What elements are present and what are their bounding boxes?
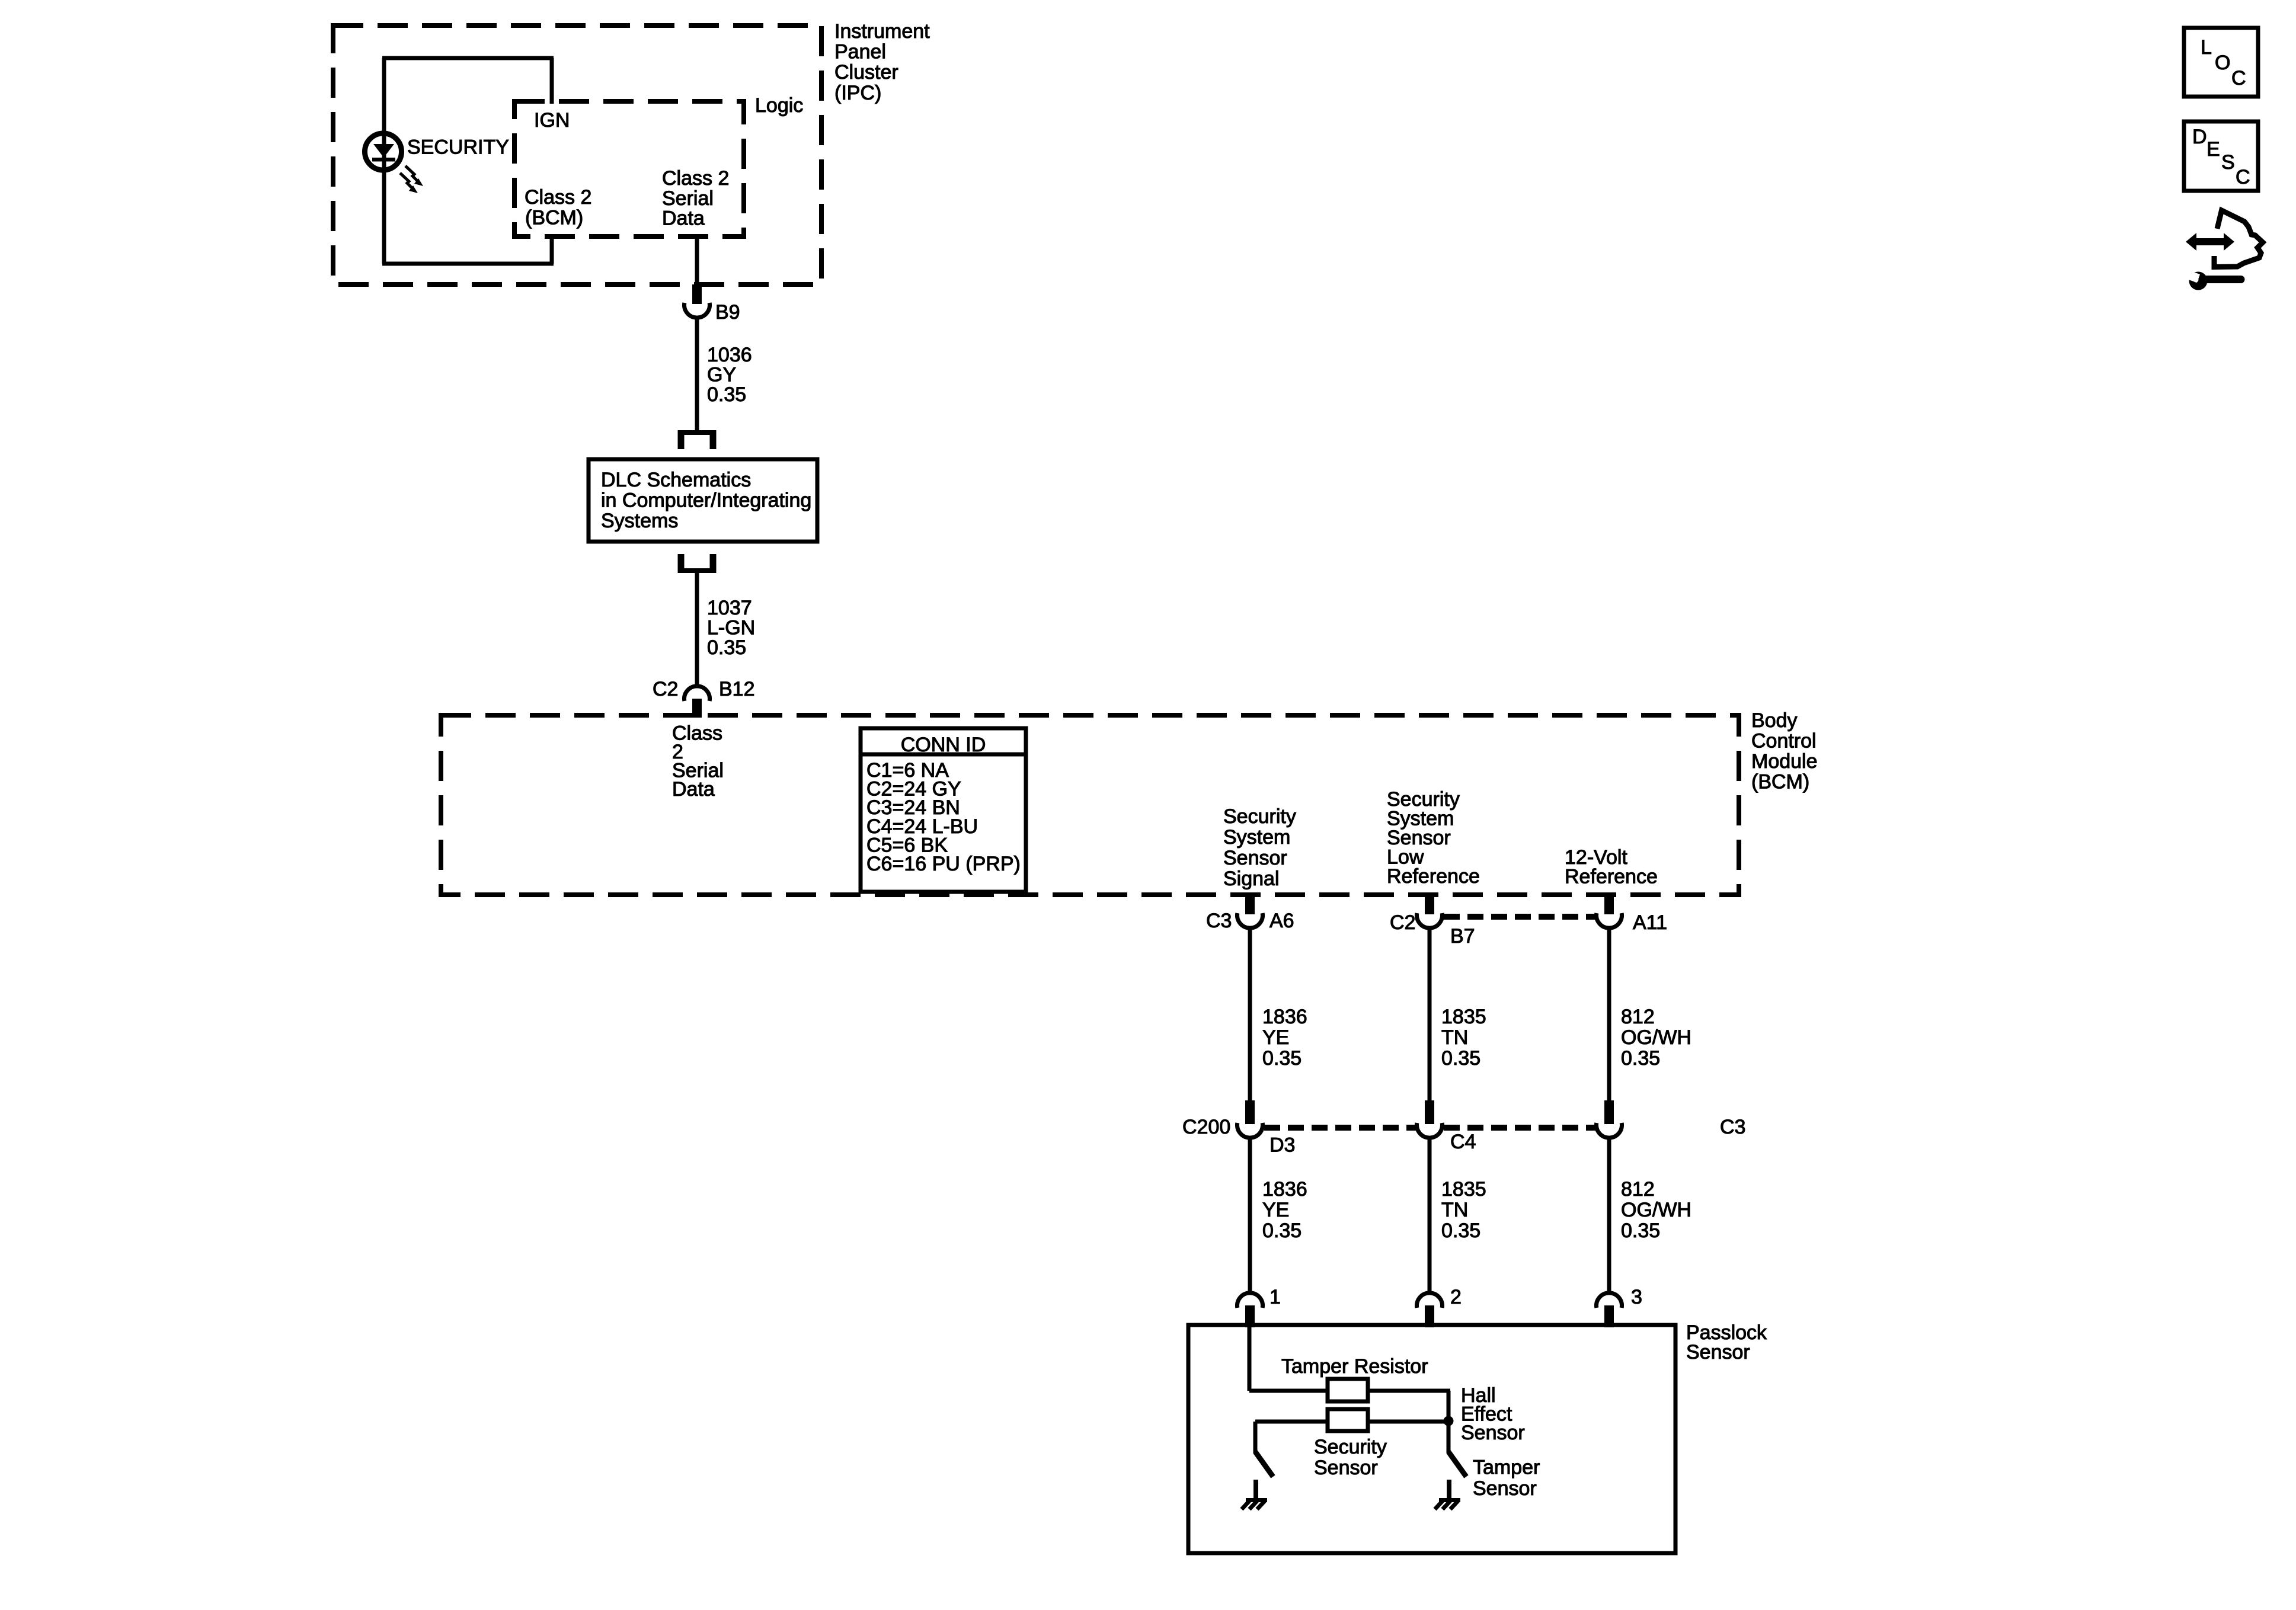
svg-text:in Computer/Integrating: in Computer/Integrating [601, 489, 811, 512]
svg-text:(BCM): (BCM) [1751, 771, 1809, 793]
svg-text:A6: A6 [1269, 910, 1294, 932]
svg-text:Security: Security [1314, 1436, 1387, 1458]
svg-text:Serial: Serial [662, 187, 714, 210]
svg-text:Instrument: Instrument [834, 20, 930, 43]
svg-text:Sensor: Sensor [1314, 1457, 1378, 1479]
svg-text:B12: B12 [719, 678, 755, 700]
svg-text:0.35: 0.35 [1262, 1047, 1302, 1070]
svg-text:C4: C4 [1450, 1131, 1476, 1153]
svg-text:Reference: Reference [1565, 866, 1658, 888]
svg-text:C2: C2 [653, 678, 678, 700]
svg-text:(IPC): (IPC) [834, 82, 881, 104]
svg-text:E: E [2207, 138, 2220, 161]
svg-text:C200: C200 [1182, 1116, 1230, 1138]
svg-text:TN: TN [1441, 1026, 1468, 1049]
svg-text:D3: D3 [1269, 1134, 1295, 1157]
svg-text:0.35: 0.35 [1621, 1047, 1660, 1070]
svg-text:D: D [2192, 126, 2207, 148]
svg-text:DLC Schematics: DLC Schematics [601, 469, 751, 491]
svg-text:3: 3 [1631, 1286, 1642, 1308]
svg-text:Sensor: Sensor [1473, 1477, 1537, 1500]
svg-text:Module: Module [1751, 750, 1818, 773]
svg-text:812: 812 [1621, 1006, 1655, 1028]
svg-text:Tamper Resistor: Tamper Resistor [1281, 1355, 1428, 1378]
svg-text:IGN: IGN [534, 109, 570, 132]
svg-text:Sensor: Sensor [1686, 1341, 1750, 1363]
svg-text:OG/WH: OG/WH [1621, 1026, 1691, 1049]
svg-text:0.35: 0.35 [1441, 1047, 1480, 1070]
svg-text:B9: B9 [715, 301, 740, 324]
svg-text:Data: Data [662, 207, 705, 230]
svg-text:GY: GY [707, 364, 736, 386]
svg-text:C3: C3 [1206, 910, 1232, 932]
svg-text:Cluster: Cluster [834, 61, 898, 84]
svg-text:Signal: Signal [1223, 868, 1280, 890]
svg-text:1835: 1835 [1441, 1006, 1486, 1028]
svg-text:L: L [2201, 36, 2212, 59]
svg-text:Class 2: Class 2 [662, 167, 729, 190]
svg-text:Tamper: Tamper [1473, 1457, 1540, 1479]
svg-text:OG/WH: OG/WH [1621, 1199, 1691, 1221]
svg-text:1835: 1835 [1441, 1178, 1486, 1201]
svg-text:Sensor: Sensor [1461, 1422, 1525, 1444]
svg-text:B7: B7 [1450, 925, 1475, 948]
svg-text:(BCM): (BCM) [525, 207, 583, 229]
svg-text:1836: 1836 [1262, 1006, 1307, 1028]
svg-text:0.35: 0.35 [1621, 1219, 1660, 1242]
svg-text:Data: Data [672, 778, 715, 801]
svg-text:O: O [2215, 52, 2230, 74]
svg-text:0.35: 0.35 [1262, 1219, 1302, 1242]
svg-text:0.35: 0.35 [707, 383, 746, 406]
svg-text:0.35: 0.35 [1441, 1219, 1480, 1242]
svg-text:Sensor: Sensor [1223, 847, 1287, 869]
svg-text:YE: YE [1262, 1199, 1289, 1221]
svg-text:2: 2 [1450, 1286, 1462, 1308]
svg-text:Class 2: Class 2 [525, 186, 591, 209]
svg-text:TN: TN [1441, 1199, 1468, 1221]
svg-text:C3: C3 [1720, 1116, 1745, 1138]
svg-text:Security: Security [1223, 805, 1296, 828]
svg-text:CONN ID: CONN ID [901, 734, 986, 756]
svg-text:1836: 1836 [1262, 1178, 1307, 1201]
svg-text:Body: Body [1751, 709, 1798, 732]
svg-text:C: C [2236, 166, 2250, 188]
svg-text:C2: C2 [1390, 911, 1415, 934]
svg-text:A11: A11 [1633, 911, 1667, 934]
svg-text:YE: YE [1262, 1026, 1289, 1049]
svg-text:C: C [2231, 67, 2246, 89]
svg-text:SECURITY: SECURITY [407, 136, 509, 159]
svg-text:Logic: Logic [755, 94, 803, 117]
svg-text:1036: 1036 [707, 344, 752, 366]
svg-text:0.35: 0.35 [707, 636, 746, 659]
svg-text:812: 812 [1621, 1178, 1655, 1201]
svg-text:Panel: Panel [834, 41, 886, 63]
svg-text:Reference: Reference [1387, 865, 1480, 888]
svg-text:L-GN: L-GN [707, 617, 755, 639]
svg-text:1: 1 [1269, 1286, 1281, 1308]
svg-text:1037: 1037 [707, 597, 752, 619]
svg-text:Control: Control [1751, 730, 1817, 753]
svg-text:C6=16 PU (PRP): C6=16 PU (PRP) [866, 853, 1021, 875]
svg-text:S: S [2221, 151, 2235, 174]
svg-text:Systems: Systems [601, 510, 678, 532]
svg-text:System: System [1223, 826, 1290, 849]
